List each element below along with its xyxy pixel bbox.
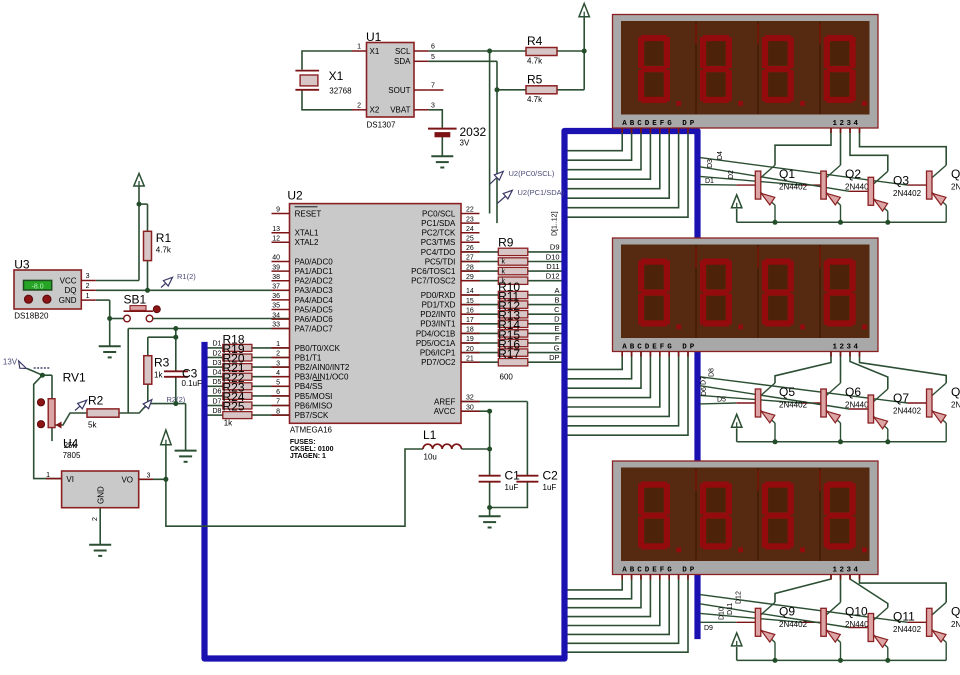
svg-text:34: 34 <box>272 312 280 319</box>
wire battery to ground <box>441 137 443 156</box>
net labels D1-D4 <box>705 151 735 185</box>
wire +5V to R1 and U3 VCC <box>96 186 148 281</box>
svg-text:D10: D10 <box>719 607 726 620</box>
svg-text:27: 27 <box>466 255 474 262</box>
label Q5 <box>779 385 808 410</box>
pot RV1 25k <box>37 371 86 451</box>
bus entry labels A-DP <box>549 286 560 362</box>
svg-text:VO: VO <box>121 476 133 485</box>
svg-text:Q8: Q8 <box>951 385 960 399</box>
junctions row 2 <box>773 439 891 444</box>
svg-text:PD6/ICP1: PD6/ICP1 <box>420 349 456 358</box>
svg-text:B: B <box>554 295 559 304</box>
ground C3 node <box>175 451 197 462</box>
svg-text:D12: D12 <box>546 272 560 281</box>
svg-text:PA1/ADC1: PA1/ADC1 <box>295 267 334 276</box>
svg-text:D4: D4 <box>213 370 222 377</box>
svg-text:PA4/ADC4: PA4/ADC4 <box>295 296 334 305</box>
label Q6 <box>845 385 874 410</box>
svg-text:PA0/ADC0: PA0/ADC0 <box>295 257 334 266</box>
svg-text:5k: 5k <box>88 421 97 430</box>
svg-text:39: 39 <box>272 264 280 271</box>
emitter rail row 2 <box>737 428 947 442</box>
inductor L1 <box>423 428 461 462</box>
svg-text:3: 3 <box>86 273 90 280</box>
svg-text:26: 26 <box>466 245 474 252</box>
label Q3 <box>893 173 922 198</box>
svg-text:-8.0: -8.0 <box>32 283 44 290</box>
svg-text:R9: R9 <box>498 236 514 250</box>
svg-text:U2(PC0/SCL): U2(PC0/SCL) <box>509 169 555 178</box>
svg-text:D3: D3 <box>707 159 714 168</box>
svg-text:3: 3 <box>276 360 280 367</box>
resistor pack R18-R25 1k <box>213 332 252 427</box>
svg-text:37: 37 <box>272 284 280 291</box>
power +5V R4R5 <box>579 4 589 17</box>
svg-text:PA3/ADC3: PA3/ADC3 <box>295 286 334 295</box>
svg-text:D10: D10 <box>546 252 560 261</box>
resistor R1 <box>144 231 172 261</box>
wire RV1 bottom <box>51 428 53 442</box>
svg-text:DS18B20: DS18B20 <box>14 312 49 321</box>
svg-text:28: 28 <box>466 264 474 271</box>
button SB1 <box>124 293 161 322</box>
svg-text:D9: D9 <box>704 625 713 632</box>
svg-text:D1: D1 <box>213 341 222 348</box>
svg-text:C: C <box>554 305 560 314</box>
svg-text:AVCC: AVCC <box>434 407 456 416</box>
wire 13V input to RV1 and U4 VI <box>27 369 62 479</box>
svg-text:D4: D4 <box>717 151 724 160</box>
wire L1 right to AVCC and C1 <box>461 411 490 516</box>
svg-text:ATMEGA16: ATMEGA16 <box>290 426 333 435</box>
svg-text:PB4/SS: PB4/SS <box>295 382 323 391</box>
svg-text:15: 15 <box>466 298 474 305</box>
svg-text:D7: D7 <box>701 376 708 385</box>
svg-text:PA5/ADC5: PA5/ADC5 <box>295 305 334 314</box>
svg-text:3: 3 <box>431 102 435 109</box>
base wires D9-D12 from bus <box>700 595 927 628</box>
svg-text:PC4/TDO: PC4/TDO <box>421 248 456 257</box>
svg-text:PC5/TDI: PC5/TDI <box>425 257 456 266</box>
svg-text:D11: D11 <box>546 262 559 271</box>
svg-text:Q10: Q10 <box>845 604 868 618</box>
svg-text:2N4402: 2N4402 <box>951 183 960 192</box>
resistor R2 <box>87 394 119 430</box>
svg-text:XTAL2: XTAL2 <box>295 238 319 247</box>
junction dots analog <box>487 409 492 510</box>
wire R4/R5 right to +5V <box>557 17 584 90</box>
svg-text:2: 2 <box>357 102 361 109</box>
bus D[1..12]/A-DP (blue) <box>205 131 698 659</box>
transistor Q8 2N4402 <box>927 383 947 442</box>
svg-text:3V: 3V <box>460 139 470 148</box>
label Q11 <box>893 610 922 635</box>
svg-text:29: 29 <box>466 274 474 281</box>
transistor Q10 2N4402 <box>821 602 841 660</box>
transistor Q5 2N4402 <box>755 383 775 442</box>
svg-text:14: 14 <box>466 288 474 295</box>
emitter rail row 3 <box>737 647 947 661</box>
svg-text:4.7k: 4.7k <box>527 57 543 66</box>
svg-text:13: 13 <box>272 226 280 233</box>
svg-text:0.1uF: 0.1uF <box>182 379 203 388</box>
wire U1 SDA to R5 and PC1 <box>429 61 526 223</box>
svg-text:PB1/T1: PB1/T1 <box>295 353 322 362</box>
resistor R5 <box>526 73 557 105</box>
svg-text:R1(2): R1(2) <box>177 272 196 281</box>
wire crystal to U1 <box>302 51 352 110</box>
wire RV1 wiper to R2 <box>56 413 88 425</box>
svg-text:8: 8 <box>276 408 280 415</box>
svg-text:D5: D5 <box>213 379 222 386</box>
transistor Q4 2N4402 <box>927 165 947 222</box>
transistor Q7 2N4402 <box>868 389 888 442</box>
net labels D9-D12 <box>704 591 743 632</box>
label Q1 <box>779 167 808 192</box>
svg-text:2032: 2032 <box>460 125 487 139</box>
svg-text:R5: R5 <box>527 73 543 87</box>
svg-text:Q4: Q4 <box>951 167 960 181</box>
resistor pack R10-R17 600 <box>498 280 528 382</box>
svg-text:PC7/TOSC2: PC7/TOSC2 <box>411 277 456 286</box>
svg-text:Q3: Q3 <box>893 173 909 187</box>
net labels D5-D8 <box>701 368 727 404</box>
svg-text:PA6/ADC6: PA6/ADC6 <box>295 315 334 324</box>
svg-text:C2: C2 <box>543 469 559 483</box>
wire U1 VBAT to battery <box>429 110 443 128</box>
svg-text:U4: U4 <box>63 437 79 451</box>
transistor Q2 2N4402 <box>821 165 841 222</box>
net label R2(2) <box>143 395 186 409</box>
svg-text:PD4/OC1B: PD4/OC1B <box>416 329 456 338</box>
svg-text:SCL: SCL <box>395 47 411 56</box>
svg-text:DS1307: DS1307 <box>367 121 396 130</box>
svg-text:19: 19 <box>466 336 474 343</box>
svg-text:R25: R25 <box>223 400 245 414</box>
svg-text:2: 2 <box>86 283 90 290</box>
svg-text:21: 21 <box>466 355 474 362</box>
svg-text:XTAL1: XTAL1 <box>295 229 319 238</box>
svg-text:PD5/OC1A: PD5/OC1A <box>416 339 456 348</box>
svg-text:PC1/SDA: PC1/SDA <box>421 219 456 228</box>
svg-text:Q2: Q2 <box>845 167 861 181</box>
svg-text:U2(PC1/SDA): U2(PC1/SDA) <box>518 188 565 197</box>
svg-text:D12: D12 <box>736 591 743 604</box>
svg-text:2: 2 <box>92 517 99 521</box>
MCU U2 ATMEGA16 <box>272 189 480 461</box>
svg-text:ABCDEFG DP: ABCDEFG DP <box>622 566 697 574</box>
net label R1(2) <box>161 272 196 288</box>
svg-text:36: 36 <box>272 293 280 300</box>
svg-text:RESET: RESET <box>295 209 322 218</box>
svg-text:1: 1 <box>86 293 90 300</box>
svg-text:PC6/TOSC1: PC6/TOSC1 <box>411 267 456 276</box>
bus entry labels D9-D12 <box>546 243 560 281</box>
wires PD0-PD7 to R10 pack to bus A-DP <box>461 295 562 362</box>
svg-text:VCC: VCC <box>60 276 77 285</box>
svg-text:D6: D6 <box>213 389 222 396</box>
ground SB1 <box>99 346 121 357</box>
svg-text:33: 33 <box>272 322 280 329</box>
svg-text:VBAT: VBAT <box>390 106 410 115</box>
svg-text:D2: D2 <box>728 170 735 179</box>
resistor pack R9 1k x4 <box>498 236 528 285</box>
svg-text:2N4402: 2N4402 <box>951 401 960 410</box>
svg-text:D8: D8 <box>213 408 222 415</box>
svg-text:JTAGEN: 1: JTAGEN: 1 <box>290 453 326 460</box>
transistor Q6 2N4402 <box>821 383 841 442</box>
wire U4 VO to +5V and L1 <box>139 445 423 527</box>
label Q4 <box>951 167 960 192</box>
svg-text:7: 7 <box>276 399 280 406</box>
IC U1 DS1307 <box>352 30 444 130</box>
svg-text:SB1: SB1 <box>124 293 147 307</box>
capacitor C1 <box>479 469 521 493</box>
ground battery <box>431 156 453 167</box>
svg-text:Q12: Q12 <box>951 604 960 618</box>
transistor Q11 2N4402 <box>868 608 888 661</box>
svg-text:4: 4 <box>276 370 280 377</box>
wires display1 segments to bus <box>568 128 689 217</box>
svg-text:1uF: 1uF <box>543 483 557 492</box>
power +5V row 3 <box>732 633 742 646</box>
svg-text:D1: D1 <box>705 178 714 185</box>
wire PA7 to R3/C3 node <box>128 329 289 414</box>
svg-text:1k: 1k <box>224 419 233 428</box>
display DS3 7SEG-MPX4 <box>613 461 879 580</box>
svg-text:1234: 1234 <box>833 343 861 351</box>
wires display2 segments to bus <box>568 352 689 436</box>
svg-text:PD0/RXD: PD0/RXD <box>421 291 456 300</box>
junction dots top <box>487 49 587 93</box>
svg-text:D2: D2 <box>213 350 222 357</box>
svg-text:R4: R4 <box>527 34 543 48</box>
display DS2 7SEG-MPX4 <box>613 238 879 357</box>
net label U2(PC1/SDA) <box>497 188 564 204</box>
wire U4 GND to ground <box>99 508 101 545</box>
svg-text:PB5/MOSI: PB5/MOSI <box>295 392 333 401</box>
transistor Q1 2N4402 <box>755 165 775 222</box>
svg-text:D: D <box>554 315 560 324</box>
svg-text:R3: R3 <box>154 356 170 370</box>
svg-text:PA7/ADC7: PA7/ADC7 <box>295 324 334 333</box>
display DS1 7SEG-MPX4 <box>613 15 879 134</box>
svg-text:U1: U1 <box>366 30 382 44</box>
svg-text:Q6: Q6 <box>845 385 861 399</box>
svg-text:13V: 13V <box>3 358 18 367</box>
transistor Q12 2N4402 <box>927 602 947 660</box>
svg-text:X2: X2 <box>370 106 380 115</box>
svg-text:D[1..12]: D[1..12] <box>552 211 559 236</box>
svg-text:RV1: RV1 <box>63 371 86 385</box>
svg-text:F: F <box>555 334 560 343</box>
svg-text:16: 16 <box>466 307 474 314</box>
base wires D5-D8 from bus <box>700 377 927 409</box>
regulator U4 7805 <box>46 437 153 522</box>
svg-text:AREF: AREF <box>434 397 455 406</box>
svg-text:32: 32 <box>466 395 474 402</box>
svg-text:D3: D3 <box>213 360 222 367</box>
junction dots left <box>40 202 178 482</box>
svg-text:D9: D9 <box>550 243 560 252</box>
svg-text:R1: R1 <box>156 231 172 245</box>
crystal X1 <box>295 69 352 96</box>
svg-text:Q1: Q1 <box>779 167 795 181</box>
transistor Q3 2N4402 <box>868 171 888 222</box>
wires display3 segments to bus <box>568 575 689 653</box>
svg-text:17: 17 <box>466 317 474 324</box>
wire U3 GND to ground and SB1 <box>96 300 124 346</box>
svg-text:Q9: Q9 <box>779 604 795 618</box>
svg-text:PB2/AIN0/INT2: PB2/AIN0/INT2 <box>295 363 350 372</box>
svg-text:9: 9 <box>276 207 280 214</box>
emitter rail row 1 <box>737 209 947 223</box>
svg-text:600: 600 <box>500 373 514 382</box>
svg-text:7805: 7805 <box>63 451 81 460</box>
svg-text:22: 22 <box>466 207 474 214</box>
svg-text:7: 7 <box>431 83 435 90</box>
ground U4 <box>89 545 111 556</box>
power +5V row 2 <box>732 414 742 427</box>
svg-text:1uF: 1uF <box>505 483 519 492</box>
wire U1 SCL to R4 and PC0 <box>429 51 526 214</box>
svg-text:10u: 10u <box>424 453 437 462</box>
label Q2 <box>845 167 874 192</box>
svg-text:4.7k: 4.7k <box>527 95 543 104</box>
svg-text:20: 20 <box>466 346 474 353</box>
sensor U3 DS18B20 <box>14 258 96 321</box>
svg-text:SOUT: SOUT <box>388 86 410 95</box>
svg-text:35: 35 <box>272 303 280 310</box>
svg-text:PD1/TXD: PD1/TXD <box>422 301 456 310</box>
svg-text:1: 1 <box>276 341 280 348</box>
svg-text:Q11: Q11 <box>893 610 915 624</box>
svg-text:R2: R2 <box>88 394 104 408</box>
svg-text:DQ: DQ <box>65 286 77 295</box>
svg-text:12: 12 <box>272 236 280 243</box>
svg-text:CKSEL: 0100: CKSEL: 0100 <box>290 446 334 453</box>
ground C1C2 <box>479 516 501 527</box>
svg-text:6: 6 <box>431 44 435 51</box>
svg-text:32768: 32768 <box>329 87 352 96</box>
svg-text:1: 1 <box>357 44 361 51</box>
transistor Q9 2N4402 <box>755 602 775 660</box>
svg-text:D6: D6 <box>701 387 708 396</box>
svg-text:FUSES:: FUSES: <box>290 439 316 446</box>
svg-text:R17: R17 <box>498 347 520 361</box>
svg-text:1234: 1234 <box>833 120 861 128</box>
collector routing row 3 <box>775 575 946 608</box>
svg-text:PC3/TMS: PC3/TMS <box>421 238 456 247</box>
svg-text:D8: D8 <box>709 368 716 377</box>
wire SB1 to PA6 <box>153 318 290 320</box>
wires bus D1-D8 to R18 pack to PB0-PB7 <box>208 348 290 415</box>
svg-text:VI: VI <box>66 475 74 484</box>
svg-text:X1: X1 <box>329 69 344 83</box>
svg-text:4.7k: 4.7k <box>156 246 172 255</box>
net label U2(PC0/SCL) <box>490 169 555 184</box>
svg-text:25: 25 <box>466 236 474 243</box>
svg-text:ABCDEFG DP: ABCDEFG DP <box>622 120 697 128</box>
svg-text:D11: D11 <box>727 603 734 615</box>
svg-text:PC2/TCK: PC2/TCK <box>422 229 456 238</box>
svg-text:40: 40 <box>272 255 280 262</box>
svg-text:Q5: Q5 <box>779 385 795 399</box>
svg-text:2N4402: 2N4402 <box>779 620 808 629</box>
svg-text:U3: U3 <box>14 258 30 272</box>
label Q8 <box>951 385 960 410</box>
svg-text:PB3/AIN1/OC0: PB3/AIN1/OC0 <box>295 373 349 382</box>
svg-text:1k: 1k <box>154 371 163 380</box>
svg-text:X1: X1 <box>370 47 380 56</box>
svg-text:GND: GND <box>97 486 106 504</box>
svg-text:5: 5 <box>276 380 280 387</box>
label Q7 <box>893 391 922 416</box>
svg-text:PC0/SCL: PC0/SCL <box>422 209 456 218</box>
svg-text:2N4402: 2N4402 <box>951 620 960 629</box>
collector routing row 2 <box>775 352 946 390</box>
svg-text:2N4402: 2N4402 <box>893 189 922 198</box>
svg-text:Q7: Q7 <box>893 391 909 405</box>
svg-text:18: 18 <box>466 327 474 334</box>
label Q9 <box>779 604 808 629</box>
svg-text:DP: DP <box>549 353 559 362</box>
svg-text:38: 38 <box>272 274 280 281</box>
svg-text:2N4402: 2N4402 <box>893 407 922 416</box>
svg-text:PB0/T0/XCK: PB0/T0/XCK <box>295 344 341 353</box>
resistor R3 <box>144 356 170 385</box>
wire R3 top/bottom <box>147 337 149 403</box>
base wires D1-D4 from bus <box>700 158 927 192</box>
capacitor C2 <box>516 469 558 493</box>
svg-text:2: 2 <box>276 351 280 358</box>
svg-text:L1: L1 <box>423 428 437 442</box>
svg-text:5: 5 <box>431 54 435 61</box>
label Q12 <box>951 604 960 629</box>
svg-text:2N4402: 2N4402 <box>779 183 808 192</box>
battery 2032 3V <box>428 125 487 148</box>
wire AREF to C2 <box>461 402 527 508</box>
svg-text:2N4402: 2N4402 <box>779 401 808 410</box>
svg-text:30: 30 <box>466 404 474 411</box>
svg-text:U2: U2 <box>287 189 303 203</box>
svg-text:2N4402: 2N4402 <box>893 625 922 634</box>
svg-text:24: 24 <box>466 226 474 233</box>
junctions row 1 <box>773 220 891 225</box>
svg-text:E: E <box>554 324 559 333</box>
svg-text:PD2/INT0: PD2/INT0 <box>420 310 456 319</box>
svg-text:G: G <box>554 343 560 352</box>
capacitor C3 <box>164 367 202 388</box>
svg-text:D7: D7 <box>213 398 222 405</box>
power +5V R1 <box>134 174 144 187</box>
svg-text:23: 23 <box>466 216 474 223</box>
wire U3 DQ to PA3 with R1 bottom <box>96 261 290 291</box>
svg-text:ABCDEFG DP: ABCDEFG DP <box>622 343 697 351</box>
svg-text:3: 3 <box>147 473 151 480</box>
svg-text:k: k <box>502 259 506 266</box>
power +5V row 1 <box>732 195 742 208</box>
resistor R4 <box>526 34 557 66</box>
svg-text:A: A <box>554 286 559 295</box>
svg-text:PB6/MISO: PB6/MISO <box>295 401 333 410</box>
wires PC4-PC7 to R9 pack to bus D9-D12 <box>461 252 562 281</box>
svg-text:PD3/INT1: PD3/INT1 <box>420 320 456 329</box>
svg-text:k: k <box>502 268 506 275</box>
svg-text:1: 1 <box>46 472 50 479</box>
label Q10 <box>845 604 874 629</box>
